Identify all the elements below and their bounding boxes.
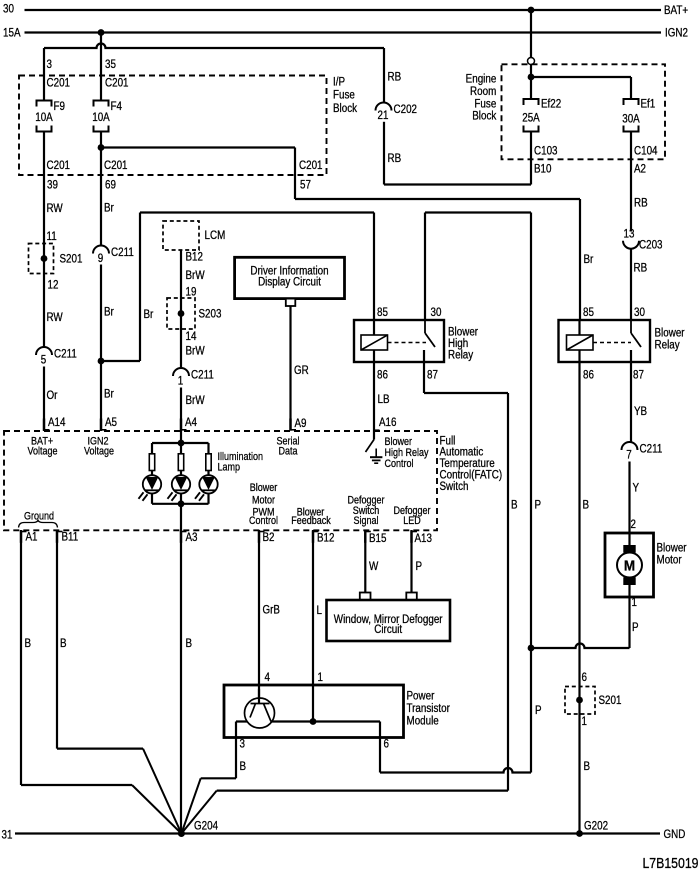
svg-text:4: 4 (265, 671, 270, 684)
svg-text:87: 87 (633, 369, 644, 382)
svg-text:1: 1 (582, 715, 587, 728)
svg-text:LED: LED (403, 515, 421, 527)
svg-text:Or: Or (47, 389, 58, 402)
svg-text:6: 6 (582, 671, 587, 684)
svg-text:86: 86 (583, 369, 594, 382)
svg-text:S201: S201 (60, 253, 83, 266)
svg-text:LCM: LCM (205, 229, 226, 242)
svg-text:Control: Control (249, 515, 278, 527)
svg-text:Transistor: Transistor (407, 702, 451, 715)
svg-text:C201: C201 (104, 159, 128, 172)
svg-text:12: 12 (48, 279, 59, 292)
svg-text:GrB: GrB (263, 604, 281, 617)
svg-text:A4: A4 (185, 416, 197, 429)
svg-text:5: 5 (41, 354, 46, 367)
svg-text:Br: Br (144, 308, 154, 321)
svg-text:6: 6 (384, 738, 389, 751)
svg-text:BrW: BrW (186, 345, 206, 358)
svg-text:Display Circuit: Display Circuit (258, 276, 321, 289)
svg-text:A9: A9 (295, 417, 307, 430)
svg-text:C201: C201 (47, 159, 71, 172)
svg-text:B11: B11 (62, 531, 79, 544)
svg-text:C201: C201 (47, 77, 71, 90)
svg-text:14: 14 (186, 330, 197, 343)
svg-text:RB: RB (388, 152, 402, 165)
svg-text:A2: A2 (634, 163, 646, 176)
svg-text:C202: C202 (394, 103, 418, 116)
svg-text:S203: S203 (199, 308, 222, 321)
svg-text:25A: 25A (522, 112, 540, 125)
svg-text:Ef1: Ef1 (641, 98, 656, 111)
svg-text:Block: Block (333, 102, 358, 115)
svg-text:Relay: Relay (448, 349, 474, 362)
svg-text:Br: Br (104, 306, 114, 319)
svg-text:2: 2 (631, 518, 636, 531)
svg-text:31: 31 (2, 829, 13, 842)
svg-text:Voltage: Voltage (84, 446, 114, 458)
svg-text:G202: G202 (584, 820, 608, 833)
svg-text:3: 3 (47, 58, 52, 71)
svg-text:GND: GND (664, 828, 686, 841)
svg-text:B: B (25, 637, 32, 650)
svg-text:C103: C103 (534, 145, 558, 158)
svg-text:RW: RW (47, 311, 64, 324)
svg-text:35: 35 (105, 58, 116, 71)
svg-text:C201: C201 (299, 159, 323, 172)
svg-text:B: B (583, 499, 590, 512)
svg-text:Lamp: Lamp (218, 462, 241, 474)
svg-text:69: 69 (105, 179, 116, 192)
svg-text:Control: Control (385, 458, 414, 470)
svg-text:C211: C211 (191, 369, 214, 382)
svg-text:87: 87 (427, 369, 438, 382)
svg-text:S201: S201 (599, 694, 622, 707)
svg-text:3: 3 (240, 738, 245, 751)
svg-text:Room: Room (470, 85, 496, 98)
svg-text:B12: B12 (186, 251, 204, 264)
svg-text:B: B (186, 637, 193, 650)
svg-text:Relay: Relay (655, 339, 681, 352)
svg-text:A14: A14 (48, 416, 66, 429)
svg-text:19: 19 (186, 286, 197, 299)
svg-text:30A: 30A (622, 113, 640, 126)
svg-text:C203: C203 (639, 239, 663, 252)
svg-text:Fuse: Fuse (333, 89, 355, 102)
svg-text:Ef22: Ef22 (541, 98, 561, 111)
svg-text:L7B15019: L7B15019 (642, 855, 698, 871)
svg-text:1: 1 (632, 596, 637, 609)
svg-text:30: 30 (634, 306, 645, 319)
svg-text:M: M (624, 558, 635, 575)
svg-text:Y: Y (633, 482, 640, 495)
svg-text:Block: Block (472, 110, 497, 123)
svg-text:Data: Data (278, 446, 297, 458)
svg-text:86: 86 (377, 369, 388, 382)
svg-text:RB: RB (634, 197, 648, 210)
svg-text:B10: B10 (534, 163, 552, 176)
svg-text:13: 13 (624, 228, 635, 241)
svg-text:RW: RW (47, 202, 64, 215)
svg-text:21: 21 (378, 109, 389, 122)
svg-text:85: 85 (377, 306, 388, 319)
svg-text:B12: B12 (317, 532, 335, 545)
svg-text:Circuit: Circuit (374, 623, 402, 636)
svg-text:B15: B15 (369, 532, 387, 545)
svg-text:A13: A13 (415, 532, 433, 545)
svg-text:C201: C201 (105, 77, 129, 90)
svg-text:BrW: BrW (186, 394, 206, 407)
svg-text:B2: B2 (263, 531, 275, 544)
svg-text:C211: C211 (54, 348, 77, 361)
svg-text:57: 57 (300, 179, 311, 192)
svg-text:1: 1 (178, 375, 183, 388)
svg-text:A5: A5 (105, 416, 117, 429)
svg-text:LB: LB (378, 393, 390, 406)
svg-text:15A: 15A (3, 27, 21, 40)
svg-text:BAT+: BAT+ (664, 4, 688, 17)
svg-text:Switch: Switch (440, 480, 469, 493)
svg-text:11: 11 (47, 230, 57, 243)
svg-text:A1: A1 (26, 531, 38, 544)
svg-text:Br: Br (584, 253, 594, 266)
svg-text:RB: RB (388, 71, 402, 84)
svg-text:A3: A3 (186, 531, 198, 544)
svg-text:B: B (584, 760, 591, 773)
svg-text:G204: G204 (194, 820, 218, 833)
svg-text:39: 39 (47, 179, 58, 192)
svg-text:A16: A16 (379, 416, 397, 429)
svg-text:L: L (317, 604, 322, 617)
svg-text:F4: F4 (111, 100, 122, 113)
svg-text:Br: Br (104, 388, 114, 401)
svg-text:9: 9 (98, 252, 103, 265)
svg-text:F9: F9 (54, 100, 65, 113)
svg-text:Br: Br (104, 202, 114, 215)
svg-text:P: P (535, 499, 542, 512)
svg-text:B: B (60, 637, 67, 650)
svg-text:C211: C211 (640, 443, 663, 456)
svg-text:P: P (416, 560, 423, 573)
svg-text:IGN2: IGN2 (665, 27, 688, 40)
svg-text:C211: C211 (111, 246, 134, 259)
svg-text:1: 1 (318, 671, 323, 684)
svg-text:Fuse: Fuse (474, 98, 496, 111)
svg-text:85: 85 (583, 306, 594, 319)
svg-text:GR: GR (294, 364, 309, 377)
svg-text:Power: Power (407, 690, 435, 703)
svg-text:30: 30 (431, 306, 442, 319)
svg-text:7: 7 (626, 449, 631, 462)
svg-text:P: P (535, 704, 542, 717)
svg-text:Engine: Engine (466, 73, 497, 86)
svg-text:RB: RB (634, 262, 648, 275)
svg-text:30: 30 (3, 3, 14, 16)
svg-text:Signal: Signal (353, 515, 378, 527)
svg-text:YB: YB (634, 405, 647, 418)
svg-text:B: B (511, 499, 518, 512)
svg-text:I/P: I/P (333, 76, 345, 89)
svg-text:Blower: Blower (250, 482, 278, 494)
svg-text:10A: 10A (92, 111, 110, 124)
svg-text:Voltage: Voltage (28, 446, 58, 458)
svg-text:Motor: Motor (252, 495, 276, 507)
svg-text:W: W (369, 560, 379, 573)
svg-text:B: B (240, 760, 247, 773)
svg-text:P: P (632, 621, 639, 634)
svg-text:Motor: Motor (657, 554, 682, 567)
svg-text:BrW: BrW (186, 269, 206, 282)
svg-text:Feedback: Feedback (291, 515, 331, 527)
svg-text:10A: 10A (35, 111, 53, 124)
svg-text:Module: Module (407, 715, 439, 728)
svg-text:C104: C104 (634, 145, 658, 158)
